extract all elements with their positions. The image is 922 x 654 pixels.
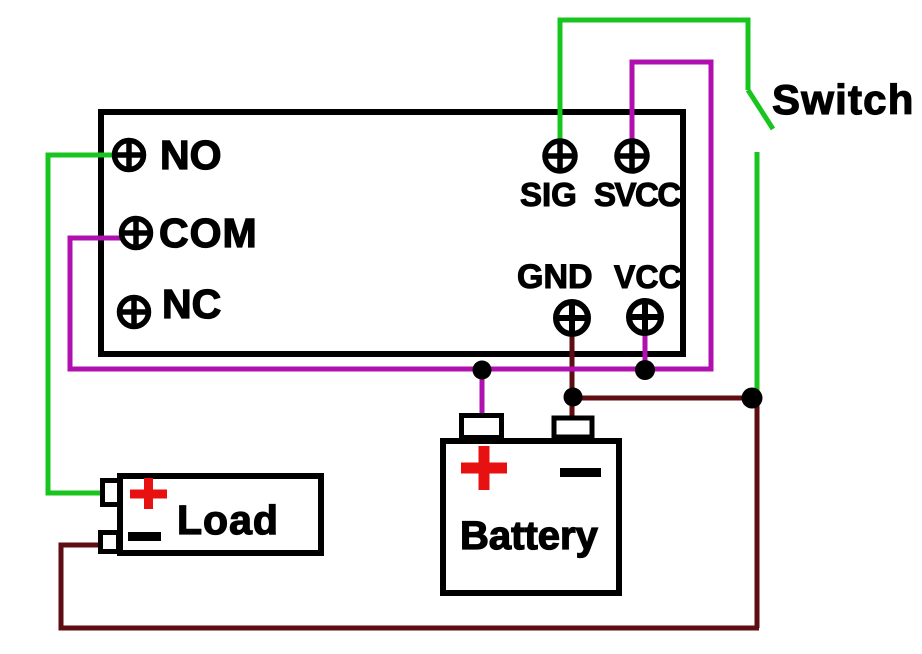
label SIG [520, 176, 577, 213]
switch SW1 blade [748, 90, 773, 129]
svg-text:SIG: SIG [520, 176, 577, 213]
wire green NO-to-Load [48, 155, 116, 493]
load LD1 box [120, 476, 321, 553]
label Battery [460, 514, 599, 558]
wire purple tap to VCC [643, 332, 648, 369]
label SVCC [594, 176, 680, 213]
wire green switch lower contact [755, 152, 760, 398]
junction VCC [635, 360, 655, 380]
battery B1 box [443, 441, 619, 593]
wire green SIG-to-Switch [560, 20, 748, 142]
junction battery-plus [473, 361, 492, 380]
wire dark-red junction to switch bottom [573, 396, 755, 401]
svg-text:NC: NC [162, 281, 221, 327]
svg-text:Load: Load [177, 497, 279, 543]
label COM [159, 210, 258, 256]
load terminal tab minus [101, 533, 119, 552]
label VCC [614, 259, 682, 295]
terminal NO [115, 141, 144, 170]
label Load [177, 497, 279, 543]
terminal GND [556, 302, 588, 334]
wire dark-red right vertical [755, 398, 760, 628]
load minus sign [128, 532, 161, 541]
terminal VCC [629, 301, 661, 333]
svg-text:VCC: VCC [614, 259, 682, 295]
svg-text:Battery: Battery [460, 514, 599, 558]
battery terminal tab minus [554, 418, 592, 437]
svg-text:GND: GND [517, 258, 593, 296]
relay module box fill [101, 112, 683, 354]
label NC [162, 281, 221, 327]
junction GND-battery [564, 388, 583, 407]
label Switch [772, 76, 915, 123]
svg-text:SVCC: SVCC [594, 176, 680, 213]
terminal COM [122, 219, 151, 248]
svg-text:COM: COM [159, 210, 258, 256]
svg-text:NO: NO [160, 132, 222, 178]
load terminal tab plus [103, 481, 120, 505]
wire purple COM loop to SVCC [70, 62, 711, 369]
label NO [160, 132, 222, 178]
wire purple tap to battery plus [480, 369, 485, 418]
wire dark-red bottom run [61, 545, 759, 628]
battery minus sign [560, 468, 601, 477]
label GND [517, 258, 593, 296]
terminal NC [120, 298, 149, 327]
terminal SIG [545, 141, 575, 171]
battery terminal tab plus [462, 416, 502, 438]
load plus sign [130, 478, 167, 509]
battery plus sign [461, 446, 507, 490]
svg-text:Switch: Switch [772, 76, 915, 123]
junction switch-bottom [742, 388, 763, 409]
terminal SVCC [617, 141, 647, 171]
wire dark-red GND to battery minus [570, 334, 575, 418]
